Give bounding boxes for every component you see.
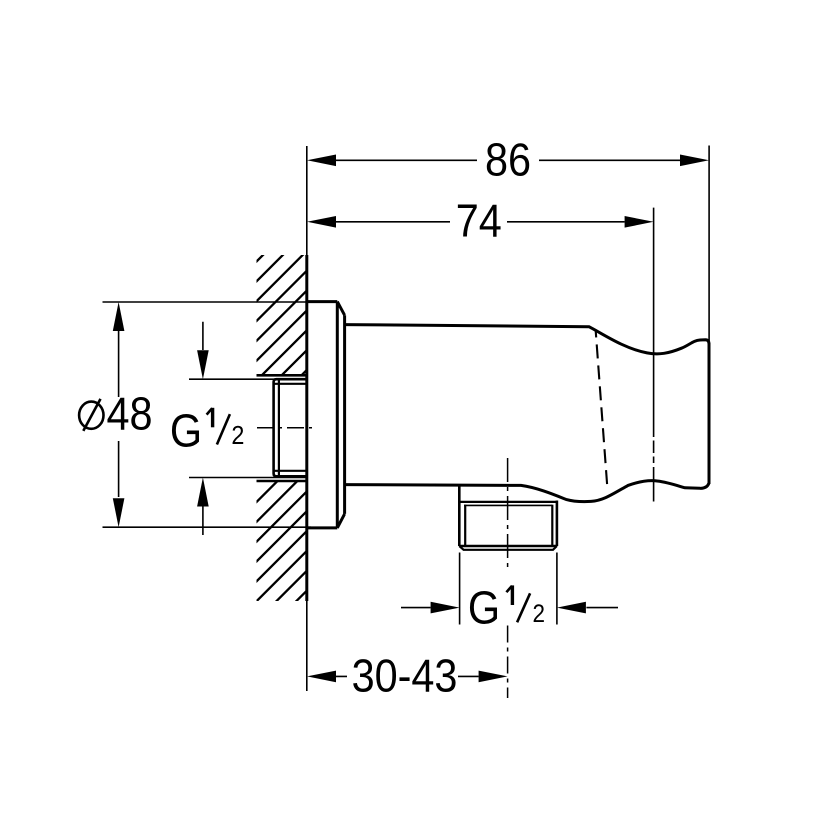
svg-text:86: 86 bbox=[485, 135, 531, 187]
svg-text:G: G bbox=[468, 583, 500, 635]
dimension diameter 48 bbox=[79, 302, 152, 527]
hidden cone dashed line bbox=[596, 330, 608, 492]
svg-text:30-43: 30-43 bbox=[352, 651, 458, 703]
dimension 74 bbox=[307, 196, 654, 248]
extension line 74 right / holder axis bbox=[653, 208, 655, 502]
outlet centerline bbox=[507, 458, 509, 698]
extension line left (wall face, above wall) bbox=[306, 146, 308, 255]
outlet G1/2 label bbox=[468, 583, 545, 635]
svg-text:2: 2 bbox=[231, 422, 244, 450]
wall G1/2 label bbox=[170, 405, 245, 457]
svg-text:74: 74 bbox=[456, 196, 502, 248]
svg-text:2: 2 bbox=[533, 600, 546, 628]
extension line 86 right bbox=[708, 146, 710, 342]
wall face line bbox=[305, 255, 308, 691]
wall recess bottom edge bbox=[257, 480, 307, 483]
extension lines wall G1/2 bbox=[189, 379, 307, 477]
in-wall supply socket G1/2 bbox=[274, 379, 307, 476]
dimension outlet G1/2 arrows bbox=[401, 602, 618, 614]
extension lines outlet G1/2 bbox=[460, 553, 557, 625]
dimension wall G1/2 arrows bbox=[197, 322, 209, 535]
body bottom profile bbox=[345, 481, 709, 502]
extension lines diameter 48 bbox=[103, 302, 312, 527]
svg-text:48: 48 bbox=[106, 388, 152, 440]
svg-text:G: G bbox=[170, 405, 202, 457]
dimension 86 bbox=[307, 135, 709, 187]
wall hatching bbox=[118, 0, 834, 640]
dimension 30-43 bbox=[307, 651, 508, 703]
outlet boss G1/2 bbox=[459, 485, 557, 550]
body top profile with holder saddle bbox=[345, 325, 709, 354]
wall recess top edge bbox=[257, 374, 307, 377]
escutcheon flange bbox=[307, 302, 345, 528]
holder right edge bbox=[708, 343, 711, 484]
socket centerline bbox=[257, 427, 312, 429]
